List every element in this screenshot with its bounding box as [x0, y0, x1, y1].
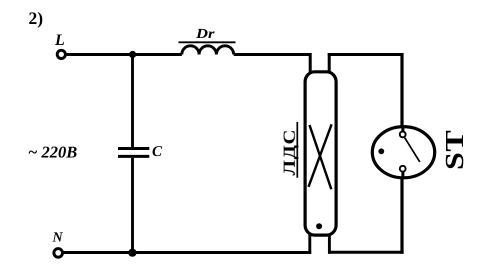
starter wire stub bottom [401, 169, 404, 179]
wire bottom-right [329, 251, 403, 254]
label Dr underline [179, 41, 236, 43]
capacitor wire lower [131, 158, 134, 253]
terminal N [54, 249, 63, 258]
wire top-right [328, 53, 404, 56]
wire bottom-left [64, 251, 312, 254]
lamp cathode dot [316, 223, 322, 229]
lamp pin bottom-right [328, 233, 331, 254]
lamp electrode X line 2 [309, 124, 332, 187]
svg-text:Dr: Dr [195, 27, 215, 42]
starter St ellipse [372, 127, 434, 178]
wire right vertical [400, 53, 403, 254]
lamp tube ЛДС [305, 72, 336, 235]
junction node bottom [128, 249, 136, 257]
svg-text:L: L [54, 32, 65, 49]
starter bottom contact [400, 166, 406, 172]
lamp pin top-left [309, 53, 312, 74]
svg-text:ST: ST [440, 130, 469, 170]
label ЛДС underline [296, 122, 298, 178]
svg-text:~ 220В: ~ 220В [28, 142, 77, 161]
terminal L [57, 50, 65, 58]
lamp pin bottom-left [308, 233, 311, 254]
wire top-left [67, 53, 182, 56]
junction node top [129, 51, 136, 58]
svg-text:2): 2) [29, 8, 44, 28]
capacitor C bottom plate [118, 155, 149, 158]
inductor Dr [182, 46, 234, 55]
svg-text:C: C [152, 144, 163, 160]
starter electrode dot [378, 148, 384, 154]
starter wire stub top [401, 126, 404, 134]
lamp electrode X line 1 [310, 125, 332, 189]
wire top-mid [234, 53, 312, 56]
svg-text:N: N [52, 231, 64, 246]
lamp pin top-right [328, 53, 331, 74]
starter switch lever [405, 138, 420, 162]
svg-text:ЛДС: ЛДС [280, 129, 299, 176]
capacitor wire upper [131, 55, 134, 148]
starter top contact [400, 132, 406, 138]
capacitor C top plate [118, 147, 149, 150]
